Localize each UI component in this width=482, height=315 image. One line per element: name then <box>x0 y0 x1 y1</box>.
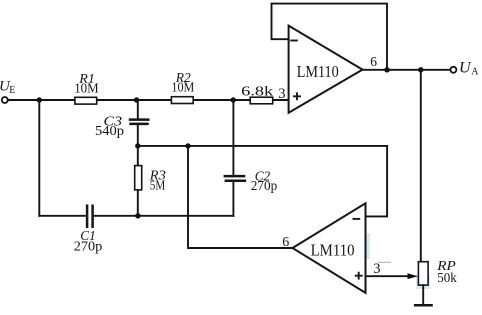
ground <box>414 304 433 307</box>
value 540p (C3) <box>95 123 124 138</box>
label C3 <box>104 115 123 130</box>
minus sign (U1) <box>291 40 297 42</box>
resistor 6.8k <box>250 97 273 104</box>
svg-text:270p: 270p <box>251 178 278 193</box>
terminal UA <box>450 67 456 73</box>
wire: RP branch vertical <box>420 70 422 262</box>
wire: follower-2 output lead <box>188 146 293 248</box>
svg-text:LM110: LM110 <box>297 62 339 81</box>
label C1 <box>80 229 96 244</box>
resistor R2 <box>171 97 193 104</box>
value 270p (C2) <box>251 178 278 193</box>
resistor R1 <box>75 97 97 104</box>
op-amp U2 <box>293 203 366 292</box>
minus sign (U2) <box>354 218 360 220</box>
terminal UE <box>2 97 8 103</box>
value 6.8k <box>241 83 273 98</box>
potentiometer RP <box>418 262 428 285</box>
svg-text:5M: 5M <box>150 178 166 193</box>
value 5M (R3) <box>150 178 166 193</box>
label R1 <box>78 72 94 87</box>
capacitor C3 <box>129 100 150 146</box>
value 50k (RP) <box>437 270 457 285</box>
op-amp U1 <box>289 26 363 113</box>
svg-text:3: 3 <box>278 86 285 102</box>
wire: bottom line left of C1 <box>39 215 86 217</box>
wire: left vertical drop <box>38 100 40 216</box>
plus sign (U1) <box>294 93 300 99</box>
svg-text:LM110: LM110 <box>311 241 355 260</box>
wire: RP to ground <box>422 285 424 304</box>
highlight artifact at RP bottom <box>416 274 430 289</box>
value 270p (C1) <box>74 239 103 254</box>
label C2 <box>255 170 271 185</box>
value 10M (R2) <box>171 80 194 95</box>
label R2 <box>175 71 191 86</box>
svg-text:6: 6 <box>282 235 289 250</box>
wire: feedback node line <box>138 145 387 147</box>
label R3 <box>149 169 166 184</box>
resistor R3 <box>135 146 142 216</box>
node: C3/R3 junction <box>135 143 140 148</box>
highlight artifact near op-amp U2 right edge <box>365 233 371 259</box>
wire: main input line <box>8 99 289 101</box>
node: RP branch junction <box>418 67 423 72</box>
node: follower-2 output junction <box>185 143 190 148</box>
pin 3 (U1) <box>278 86 285 102</box>
svg-text:E: E <box>9 85 15 96</box>
node: R2 output junction <box>231 97 236 102</box>
wire: U1 feedback loop <box>272 4 388 70</box>
label LM110 (U2) <box>311 241 355 260</box>
svg-text:50k: 50k <box>437 270 457 285</box>
svg-text:10M: 10M <box>74 81 99 96</box>
label RP <box>436 259 456 274</box>
svg-text:10M: 10M <box>171 80 194 95</box>
wire: bottom line right of C1 <box>94 215 234 217</box>
node: input junction <box>37 97 42 102</box>
wire: U2 inverting input stub <box>366 147 388 217</box>
pin 6 (U1) <box>370 54 377 69</box>
svg-text:3: 3 <box>373 261 380 277</box>
label LM110 (U1) <box>297 62 339 81</box>
svg-text:540p: 540p <box>95 123 124 138</box>
node: R3 bottom junction <box>135 213 140 218</box>
plus sign (U2) <box>356 273 362 279</box>
capacitor C2 <box>224 100 247 216</box>
highlight artifact near op-amp U2 plus input <box>352 274 367 290</box>
svg-text:6.8k: 6.8k <box>241 83 273 98</box>
pin 6 (U2) <box>282 235 289 250</box>
wire: U1 output line <box>363 69 451 71</box>
svg-text:6: 6 <box>370 54 377 69</box>
svg-text:U: U <box>459 60 472 77</box>
capacitor C1 <box>87 205 93 229</box>
wire: U2 non-inverting input to RP wiper <box>366 273 419 279</box>
node: C3 top junction <box>134 97 139 102</box>
value 10M (R1) <box>74 81 99 96</box>
label UA <box>459 60 479 78</box>
svg-text:270p: 270p <box>74 239 103 254</box>
node: feedback junction <box>384 67 389 72</box>
label UE <box>0 79 15 97</box>
svg-text:A: A <box>471 67 479 78</box>
pin 3 (U2) <box>373 261 380 277</box>
artifact overbar near pin 3 <box>378 262 391 263</box>
